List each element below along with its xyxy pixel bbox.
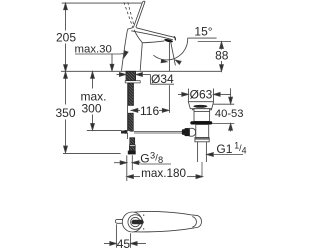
svg-text:G3/8: G3/8 (140, 150, 163, 165)
dimension diameter 34 (117, 72, 175, 86)
aerator (spout outlet) (164, 38, 173, 43)
swivel arc 15deg (153, 38, 187, 64)
svg-text:15°: 15° (194, 24, 212, 38)
dimension 205 (56, 3, 76, 71)
dimension max.180 (127, 167, 203, 180)
waste neck (194, 109, 210, 122)
dimension 116 (131, 104, 169, 118)
svg-text:350: 350 (55, 106, 75, 120)
dimension 88 (198, 42, 231, 72)
dimension max. 300 (80, 72, 106, 130)
svg-text:G11/4: G11/4 (216, 141, 246, 156)
handle top view: lever outline (134, 211, 202, 231)
svg-text:45: 45 (117, 237, 131, 250)
dimension 40-53 (212, 88, 243, 131)
svg-text:Ø63: Ø63 (190, 88, 213, 102)
waste centerline below tailpipe (201, 162, 203, 177)
svg-text:Ø34: Ø34 (151, 72, 174, 86)
handle top view: joint ticks (143, 214, 144, 215)
spout vertical axis line (168, 42, 170, 113)
supply hose lower segment (128, 113, 133, 131)
waste tailpipe (198, 142, 207, 162)
deck reference line (61, 70, 222, 72)
svg-text:116: 116 (140, 104, 159, 118)
waste lower body (196, 125, 209, 138)
lever (solid position) (133, 1, 145, 27)
supply hose upper segment (128, 83, 133, 105)
label G1 1/4 (207, 141, 247, 157)
mounting washer (125, 81, 140, 83)
waste coupling nut (195, 138, 209, 142)
pop-up pull rod (vertical) (127, 83, 129, 139)
svg-text:300: 300 (81, 101, 101, 115)
waste O-ring (190, 121, 212, 124)
threaded shank (126, 71, 136, 80)
waste lever socket (182, 128, 196, 136)
pop-up horizontal rod (134, 132, 183, 134)
svg-text:40-53: 40-53 (215, 108, 244, 120)
faucet body outline (122, 28, 176, 71)
dimension max.30 (75, 44, 129, 71)
label 15deg (188, 24, 217, 38)
svg-text:205: 205 (56, 31, 76, 45)
G3/8 extension lines (127, 155, 133, 181)
spout nose shading (174, 36, 175, 40)
svg-text:max.180: max.180 (141, 167, 186, 180)
pop-up waste flange (188, 102, 213, 110)
hose end G3/8 connector (128, 138, 136, 155)
handle top view: knob inner circle (131, 217, 140, 226)
handle top view: lever tip inner contour (192, 217, 196, 228)
svg-text:88: 88 (215, 48, 229, 62)
handle top view: knob middle circle (128, 215, 143, 230)
handle top view: set screw tab (115, 219, 122, 223)
tilted 15deg line (171, 42, 176, 66)
hose-end reference line (350 bottom) (63, 152, 121, 154)
pop-up rod connector at hose (121, 130, 130, 134)
dimension diameter 63 (178, 88, 231, 102)
handle top view: knob outer circle (122, 212, 142, 232)
handle top view: dark grip bar (132, 220, 144, 225)
top reference line (lever max height) (62, 2, 142, 4)
lever (dashed raised position) (124, 2, 134, 27)
label G3/8 (114, 150, 171, 165)
dimension 45 (104, 224, 146, 250)
dimension 350 (55, 72, 75, 153)
rod reference line (max300 bottom) (87, 129, 121, 131)
